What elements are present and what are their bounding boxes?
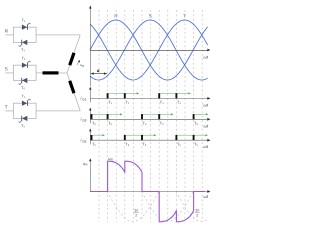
svg-text:T₆: T₆ [194,122,198,126]
svg-text:T₅: T₅ [177,142,181,146]
svg-text:T₃: T₃ [160,122,164,126]
svg-text:2: 2 [196,214,198,218]
svg-text:T₄: T₄ [160,101,164,105]
svg-text:T₅: T₅ [92,142,96,146]
svg-text:T₅: T₅ [194,142,198,146]
svg-text:2: 2 [135,214,137,218]
svg-text:G3: G3 [82,119,86,123]
svg-text:G5: G5 [82,139,86,143]
svg-text:T₂: T₂ [143,142,147,146]
svg-text:T₄: T₄ [177,101,181,105]
svg-text:a: a [97,68,100,74]
svg-text:R: R [114,14,118,20]
svg-text:G1: G1 [82,98,86,102]
svg-text:T₃: T₃ [22,57,26,61]
svg-text:T₆: T₆ [108,122,112,126]
svg-text:T₃: T₃ [143,122,147,126]
svg-text:R: R [82,65,84,68]
svg-text:T: T [183,14,186,20]
svg-text:S: S [5,66,8,71]
svg-text:3π: 3π [134,209,139,213]
svg-text:T₄: T₄ [21,48,25,52]
svg-text:T₂: T₂ [125,142,129,146]
svg-text:T₆: T₆ [21,86,25,90]
svg-text:T: T [5,104,8,109]
svg-text:T₂: T₂ [21,124,25,128]
svg-text:S: S [149,14,152,20]
svg-text:T₅: T₅ [22,95,26,99]
svg-text:T₆: T₆ [92,122,96,126]
svg-text:3π: 3π [195,209,200,213]
